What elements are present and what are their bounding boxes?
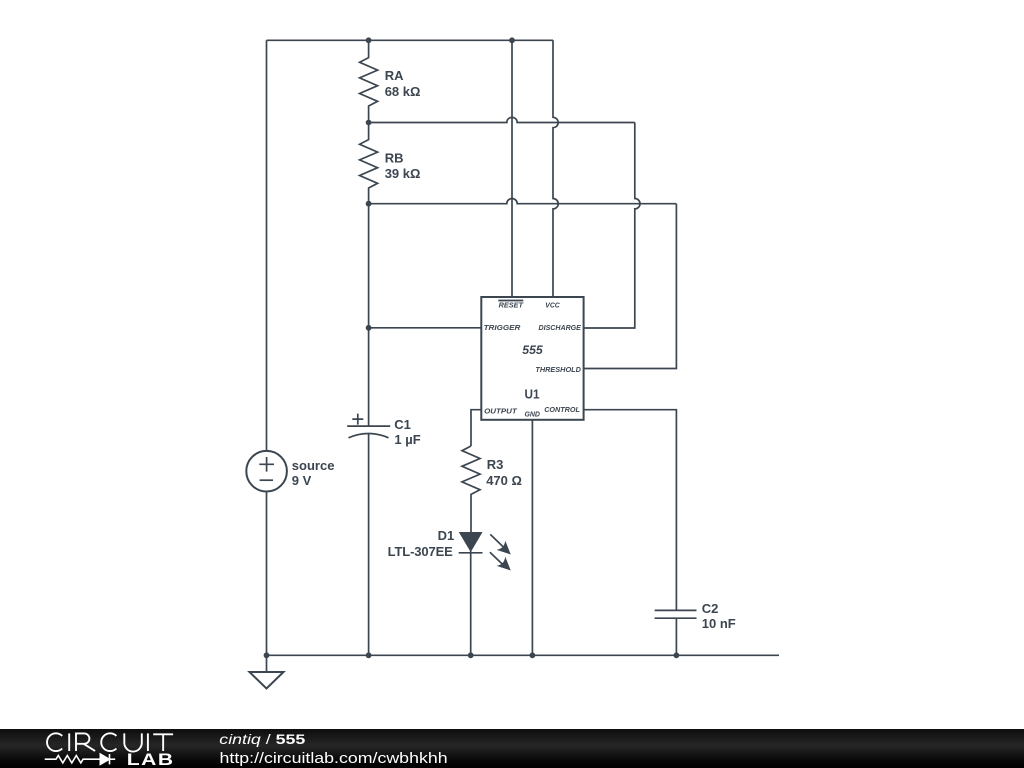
svg-text:9 V: 9 V [292,473,312,488]
svg-text:1 µF: 1 µF [394,432,420,447]
wire RESET vertical x=512 [511,40,513,297]
wire left rail lower (source bottom to ground rail) [266,492,268,656]
node dot ground rail at D1 [468,652,474,658]
svg-text:10 nF: 10 nF [702,616,736,631]
svg-text:LTL-307EE: LTL-307EE [388,544,454,559]
capacitor C1 plus sign [352,414,363,425]
svg-text:R3: R3 [487,457,504,472]
svg-text:D1: D1 [438,528,455,543]
footer bar [0,729,1024,768]
wire OUTPUT pin to R3 top [471,410,481,446]
wire ground rail [267,654,780,656]
wire discharge horizontal y=122.5 with hop over x=512 [369,117,635,122]
svg-text:CONTROL: CONTROL [544,405,580,414]
node dot ground rail at C2 [674,652,680,658]
voltage source circle [246,451,287,492]
wire trigger vertical x=368.6 [368,204,370,328]
svg-text:C1: C1 [394,417,411,432]
wire CONTROL pin to C2 [584,410,677,611]
LED D1 triangle [460,533,482,551]
wire threshold vertical x=676.4 into THRESHOLD pin [584,204,677,369]
wire C1 top lead [368,328,370,426]
svg-text:TRIGGER: TRIGGER [484,323,521,332]
wire threshold horizontal y=203.7 with hop over x=512 [369,198,677,203]
svg-text:cintiq / 555: cintiq / 555 [219,733,305,748]
svg-text:RB: RB [385,151,404,166]
wire C1 bottom lead [368,433,370,655]
CircuitLab logo CIRCUIT letters [47,733,173,751]
svg-text:470 Ω: 470 Ω [486,473,522,488]
wire GND pin to ground rail [531,420,533,656]
svg-text:68 kΩ: 68 kΩ [385,84,421,99]
resistor R3 [462,446,480,533]
capacitor C2 bottom plate [655,617,697,619]
node dot ground rail at GND pin [530,652,536,658]
CircuitLab logo squiggle and diode [45,754,116,764]
svg-text:OUTPUT: OUTPUT [484,406,518,415]
resistor RB [360,123,378,204]
svg-text:source: source [292,458,335,473]
node dot RA top [366,37,372,43]
svg-text:555: 555 [522,343,543,357]
svg-text:http://circuitlab.com/cwbhkhh: http://circuitlab.com/cwbhkhh [220,750,448,766]
wire D1 to ground rail [470,551,472,655]
node dot RB bottom junction [366,201,372,207]
capacitor C2 top plate [655,609,697,611]
op 555 IC box U1 [481,297,583,420]
capacitor C1 top plate [347,425,390,427]
LED D1 cathode bar [459,552,483,554]
svg-text:RA: RA [385,68,404,83]
svg-text:DISCHARGE: DISCHARGE [539,323,582,332]
svg-text:U1: U1 [525,386,540,401]
svg-text:C2: C2 [702,601,719,616]
svg-text:LAB: LAB [127,751,175,768]
ground symbol [266,655,268,672]
svg-text:VCC: VCC [545,300,560,309]
wire C2 bottom lead [675,618,677,655]
wire VCC vertical x=553 with hops over y=122.5 and y=203.7 [553,40,558,297]
resistor RA [360,40,378,122]
node dot RA-RB junction [366,120,372,126]
svg-text:RESET: RESET [499,300,525,309]
LED light arrow 2 [490,552,515,575]
node dot ground rail at C1 [366,652,372,658]
source plus sign [259,457,274,472]
node dot ground rail at source [264,652,270,658]
capacitor C1 curved bottom plate [349,434,389,438]
wire trigger horizontal into TRIGGER pin [369,327,482,329]
source minus sign [260,479,273,481]
svg-text:39 kΩ: 39 kΩ [385,166,421,181]
node dot reset/top-rail [509,37,515,43]
wire discharge vertical x=634.8 with hop over y=203.7, into DISCHARGE pin [584,123,640,329]
wire left rail upper (source top to top rail) [266,40,268,451]
LED light arrow 1 [490,534,515,559]
node dot trigger junction [366,325,372,331]
svg-text:GND: GND [524,409,540,418]
wire top power rail [267,39,554,41]
svg-text:THRESHOLD: THRESHOLD [535,365,581,374]
